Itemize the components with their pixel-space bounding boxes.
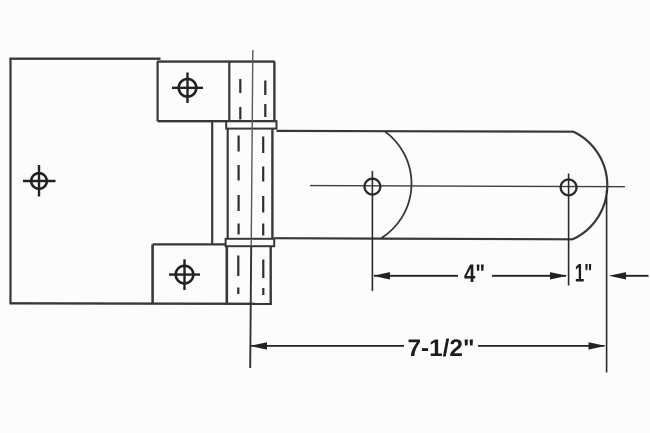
strap left end edge: [211, 121, 213, 244]
knuckle joint band 2: [226, 239, 275, 246]
hinge pin center line upper: [251, 50, 254, 129]
strap inner arc: [381, 131, 411, 239]
top mounting tab: [157, 62, 277, 122]
hinge barrel middle knuckle: [228, 129, 273, 239]
svg-text:7-1/2": 7-1/2": [408, 335, 475, 362]
hole center line horizontal: [310, 186, 625, 187]
screw hole center mark, top tab: [172, 73, 203, 104]
left leaf plate: [9, 58, 272, 304]
hidden pin hole dashed lines, middle knuckle: [239, 136, 264, 236]
bottom mounting tab: [153, 244, 226, 303]
dimension 1 inch: [609, 272, 649, 279]
hinge barrel top knuckle: [229, 62, 274, 122]
strap hole 1: [365, 171, 381, 291]
hinge pin center line middle: [251, 129, 252, 247]
svg-text:4": 4": [464, 260, 485, 288]
hinge pin center line lower (also 7-1/2 left extension): [250, 246, 251, 368]
strap hole 2: [561, 174, 577, 286]
svg-text:1": 1": [575, 260, 593, 288]
extension line, strap right end: [606, 190, 608, 373]
screw hole center mark, bottom tab: [169, 259, 200, 290]
strap outline: top edge, rounded end cap, bottom edge: [274, 131, 607, 239]
hinge barrel bottom knuckle: [227, 246, 271, 303]
dimension 7-1/2 inch: [250, 342, 606, 349]
hidden pin hole dashed lines, bottom knuckle: [238, 256, 263, 296]
dimension 4 inch: [373, 272, 568, 279]
screw hole center mark, plate: [23, 165, 56, 197]
knuckle joint band 1: [226, 121, 276, 128]
hidden pin hole dashed lines, top knuckle: [240, 79, 265, 120]
